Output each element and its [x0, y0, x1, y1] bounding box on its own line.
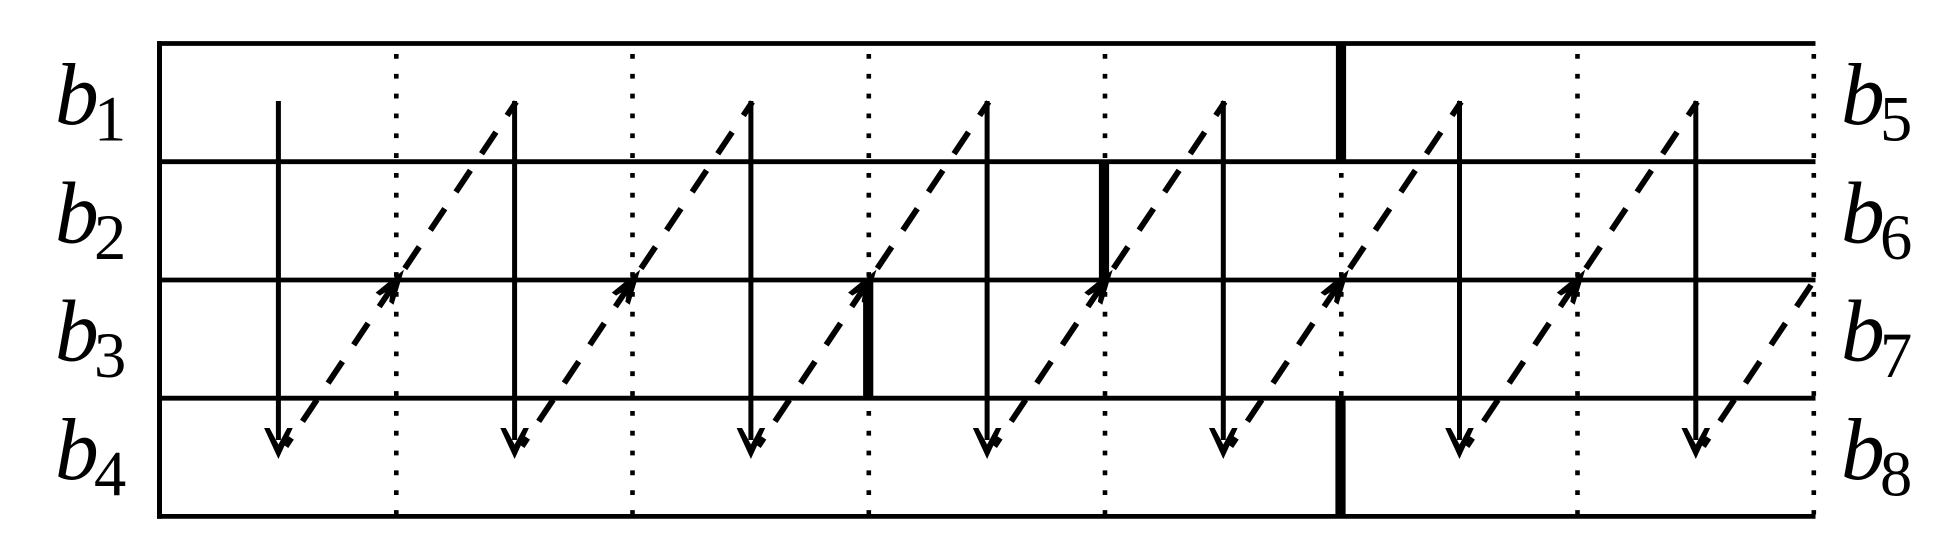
dashed shift arrow 5: [1231, 102, 1461, 446]
label b6: [1841, 164, 1912, 273]
label b3: [55, 283, 126, 392]
dotted column separator 5: [1339, 54, 1344, 515]
svg-text:5: 5: [1880, 84, 1912, 155]
dashed shift arrow 3: [758, 102, 988, 446]
thick delay marker row b2: [1099, 162, 1109, 280]
svg-text:7: 7: [1880, 320, 1912, 391]
svg-text:3: 3: [94, 320, 126, 391]
bottom border of register box: [157, 514, 1816, 519]
solid down arrow 3: [737, 101, 766, 459]
solid down arrow 5: [1209, 101, 1238, 459]
solid down arrow 2: [500, 101, 529, 459]
svg-text:b: b: [1841, 401, 1885, 498]
label b5: [1841, 46, 1912, 155]
dotted column separator 2: [630, 54, 635, 515]
dashed shift arrow 2: [522, 102, 752, 446]
left border of register box: [157, 41, 162, 519]
label b4: [55, 401, 126, 510]
svg-text:1: 1: [94, 84, 126, 155]
dotted column separator 6: [1575, 54, 1580, 515]
label b1: [55, 46, 126, 155]
solid down arrow 4: [973, 101, 1002, 459]
solid down arrow 1: [264, 101, 293, 459]
dashed shift arrow 6: [1467, 102, 1697, 446]
svg-text:8: 8: [1880, 438, 1912, 509]
row line b3/b4: [157, 396, 1816, 401]
solid down arrow 6: [1445, 101, 1474, 459]
dashed shift arrow 7: [1703, 278, 1815, 446]
label b7: [1841, 283, 1912, 392]
thick delay marker row b3: [863, 280, 873, 398]
svg-text:b: b: [1841, 164, 1885, 261]
label b2: [55, 164, 126, 273]
dashed shift arrow 1: [286, 102, 516, 446]
svg-text:b: b: [55, 283, 99, 380]
solid down arrow 7: [1682, 101, 1711, 459]
dotted column separator 7: [1812, 54, 1817, 515]
svg-text:b: b: [55, 164, 99, 261]
svg-text:2: 2: [94, 202, 126, 273]
label b8: [1841, 401, 1912, 510]
svg-text:b: b: [55, 46, 99, 143]
dotted column separator 3: [866, 54, 871, 515]
dashed shift arrow 4: [995, 102, 1225, 446]
svg-text:6: 6: [1880, 202, 1912, 273]
thick delay marker row b1: [1336, 44, 1346, 162]
top border of register box: [157, 41, 1816, 46]
thick delay marker row b4: [1335, 398, 1345, 516]
row line b2/b3: [157, 278, 1816, 283]
row line b1/b2: [157, 159, 1816, 164]
dotted column separator 4: [1103, 54, 1108, 515]
svg-text:b: b: [1841, 283, 1885, 380]
svg-text:b: b: [55, 401, 99, 498]
dotted column separator 1: [394, 54, 399, 515]
svg-text:b: b: [1841, 46, 1885, 143]
svg-text:4: 4: [94, 438, 126, 509]
